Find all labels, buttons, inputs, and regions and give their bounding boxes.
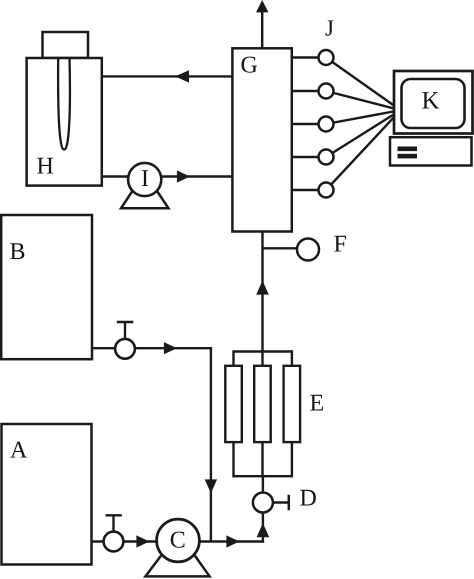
svg-text:E: E <box>310 391 325 417</box>
svg-text:H: H <box>37 154 54 180</box>
svg-text:G: G <box>241 53 258 79</box>
arrow on B line <box>164 342 177 354</box>
detector J5 <box>319 183 334 198</box>
arrow pump C outflow <box>226 535 239 547</box>
wire G bottom to columns E <box>256 231 269 367</box>
valve on A line <box>104 515 124 551</box>
wire detector 3 to K <box>326 111 396 124</box>
wire G to detector 5 <box>292 189 326 191</box>
wire valve D down to pump line <box>257 513 270 543</box>
wire detector 1 to K <box>326 58 396 108</box>
wire A to pump C to D <box>92 540 265 542</box>
wire B to corner <box>92 347 212 349</box>
wire branch to sensor F <box>263 247 299 249</box>
arrow on A line <box>136 535 149 547</box>
tank H neck <box>43 32 89 58</box>
wire G to detector 3 <box>292 123 326 125</box>
wire detector 2 to K <box>326 91 396 109</box>
svg-text:I: I <box>141 166 149 192</box>
tank A <box>2 424 92 565</box>
sensor F <box>297 239 319 261</box>
computer K drive slot 2 <box>398 154 418 159</box>
computer K monitor <box>394 71 473 134</box>
columns E top manifold <box>234 350 292 367</box>
wire G to tank H <box>102 70 232 82</box>
column E left <box>225 366 242 442</box>
svg-text:D: D <box>300 486 317 512</box>
wire detector 4 to K <box>326 113 396 157</box>
valve on B line <box>115 322 135 359</box>
detector J3 <box>319 117 334 132</box>
svg-text:K: K <box>422 88 440 115</box>
pump I <box>128 163 161 196</box>
wire G to detector 4 <box>292 156 326 158</box>
computer K base <box>390 137 472 165</box>
svg-text:F: F <box>334 232 347 258</box>
svg-text:C: C <box>170 528 186 554</box>
column G <box>232 48 291 231</box>
computer K screen <box>402 79 465 128</box>
wire detector 5 to K <box>326 115 396 190</box>
columns E bottom manifold <box>234 442 292 477</box>
detector J4 <box>319 150 334 165</box>
svg-text:J: J <box>325 16 334 41</box>
tank B <box>1 215 92 359</box>
column E right <box>284 366 301 442</box>
pump C <box>157 519 200 562</box>
wire G to detector 2 <box>292 90 326 92</box>
detector J2 <box>319 84 334 99</box>
detector J1 <box>319 50 334 65</box>
column E center <box>254 366 271 442</box>
tank H <box>27 58 102 186</box>
svg-text:B: B <box>10 239 26 265</box>
arrow pump I outflow <box>177 170 190 182</box>
svg-text:A: A <box>10 438 28 464</box>
wire outlet from G top <box>256 0 268 49</box>
wire H to pump I to G <box>102 175 232 177</box>
electrode inside H <box>58 58 70 150</box>
computer K drive slot 1 <box>398 147 418 152</box>
wire manifold to valve D <box>262 476 264 493</box>
wire G to detector 1 <box>292 56 326 58</box>
pump I base <box>121 191 169 208</box>
pump C base <box>145 553 209 576</box>
wire corner down to pump line <box>205 348 217 541</box>
valve D <box>253 493 289 513</box>
